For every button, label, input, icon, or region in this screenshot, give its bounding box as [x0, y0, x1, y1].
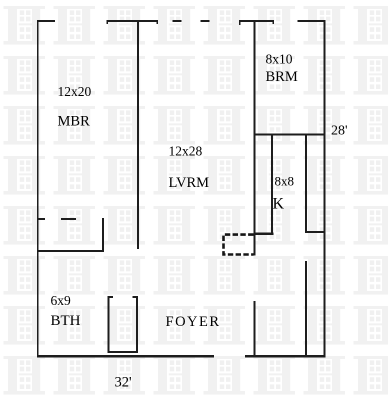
svg-text:8x10: 8x10 [266, 52, 293, 67]
svg-text:MBR: MBR [58, 114, 91, 130]
tick: top wall segment B right end cap [156, 22, 158, 24]
window dash 1 in top wall [173, 20, 182, 22]
wall: bottom exterior left of entry door [37, 355, 214, 357]
wall: left exterior [37, 20, 39, 358]
wall: foyer closet bottom [107, 351, 138, 353]
svg-text:LVRM: LVRM [169, 175, 210, 191]
svg-text:8x8: 8x8 [275, 174, 295, 189]
tick: foyer closet left top cap [109, 296, 113, 298]
wall: BTH top horizontal y=251 [37, 250, 104, 252]
door dash: MBR closet y=219 [61, 218, 76, 220]
dashed appliance box left of kitchen wall [224, 235, 254, 255]
tick: foyer closet right top cap [132, 296, 136, 298]
tick: top wall segment C right end cap [272, 22, 274, 24]
wall: top exterior segment D (right corner) [298, 20, 326, 22]
wall: kitchen left x=272 [271, 133, 273, 234]
wall: foyer closet right vertical x=137 [136, 296, 138, 352]
svg-text:12x28: 12x28 [169, 144, 203, 159]
wall: bottom exterior right of entry door [245, 355, 325, 357]
wall: top exterior segment A (left corner) [37, 20, 55, 22]
wall: top exterior segment C (over LVRM/BRM) [239, 20, 274, 22]
wall: x=305 lower (rear hall) [305, 261, 307, 356]
svg-text:32': 32' [115, 375, 132, 391]
wall: LVRM / kitchen partition x=254 upper [253, 20, 255, 256]
svg-text:BTH: BTH [51, 313, 81, 329]
tick: top wall segment C left end cap [239, 22, 241, 25]
svg-text:6x9: 6x9 [51, 293, 72, 308]
wall: x=254 lower (foyer right) [253, 301, 255, 356]
wall: kitchen bottom-right horizontal y=231.5 [305, 231, 324, 233]
wall: foyer closet left vertical x=108 [107, 296, 109, 352]
wall: BRM / kitchen horizontal y=134 [253, 133, 324, 135]
wall: kitchen bottom-left horizontal y=233 [253, 233, 273, 235]
tick: top wall segment B left end cap [107, 22, 109, 24]
svg-text:28': 28' [331, 124, 348, 139]
wall: MBR / LVRM partition x=138 [137, 20, 139, 249]
wall: top exterior segment B (over MBR, T at x138) [107, 20, 159, 22]
svg-text:12x20: 12x20 [58, 84, 92, 99]
wall: MBR closet right vertical x=103 [102, 218, 104, 252]
svg-text:K: K [273, 196, 285, 213]
svg-text:BRM: BRM [266, 69, 298, 85]
svg-text:FOYER: FOYER [166, 314, 221, 330]
wall: right exterior [323, 20, 325, 358]
wall: kitchen right x=305 upper [305, 133, 307, 231]
wall: MBR closet stub from left wall y=219 [37, 218, 45, 220]
window dash 2 in top wall [201, 20, 210, 22]
